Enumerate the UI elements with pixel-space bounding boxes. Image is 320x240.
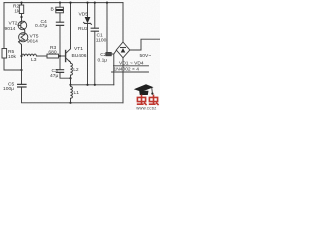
wire base node down to C3 bbox=[59, 56, 61, 70]
transistor VT1 bbox=[66, 49, 71, 62]
capacitor C3 bbox=[56, 70, 63, 73]
wire VD5 drop bbox=[87, 3, 89, 17]
wire R2 drop bbox=[21, 3, 23, 5]
wire AC input bbox=[130, 39, 160, 50]
svg-text:VD5: VD5 bbox=[79, 11, 89, 17]
svg-text:47μ: 47μ bbox=[50, 73, 58, 79]
svg-text:680: 680 bbox=[48, 49, 56, 55]
svg-text:R2: R2 bbox=[13, 3, 20, 9]
capacitor C5 bbox=[18, 84, 26, 87]
capacitor C4 bbox=[56, 22, 63, 25]
svg-text:RU2: RU2 bbox=[78, 26, 88, 32]
wire C1 drop bbox=[94, 3, 96, 29]
node below R2 bbox=[20, 16, 22, 18]
wire L1 to bottom rail bbox=[70, 98, 72, 102]
wire B to C4 bbox=[59, 13, 61, 22]
svg-text:50V~: 50V~ bbox=[140, 53, 152, 59]
resistor R3 bbox=[47, 54, 59, 58]
node bottom rail at L1 bbox=[69, 102, 71, 104]
svg-text:9014: 9014 bbox=[27, 39, 38, 45]
resistor R5 bbox=[2, 49, 7, 59]
node top rail at C2 line bbox=[106, 1, 108, 3]
node mid node bbox=[69, 84, 71, 86]
wire top rail bbox=[4, 2, 123, 4]
inductor L1 bbox=[71, 85, 73, 99]
svg-text:9014: 9014 bbox=[5, 26, 16, 32]
svg-text:L3: L3 bbox=[31, 57, 37, 63]
wire left rail lower to node bbox=[4, 58, 22, 70]
wire down to mid node bbox=[70, 78, 72, 85]
node top rail at VT1 bbox=[69, 1, 71, 3]
inductor L3 bbox=[22, 54, 37, 56]
wire R3 to node bbox=[59, 55, 61, 57]
bridge rectifier VD1-VD4 bbox=[116, 42, 130, 58]
capacitor C2 bbox=[106, 52, 111, 55]
wire C1 down to mid rail bbox=[94, 31, 96, 85]
transistor VT5 bbox=[19, 30, 28, 56]
node junction left-node bbox=[20, 69, 22, 71]
node L3 tap bbox=[20, 55, 22, 57]
svg-text:VT1: VT1 bbox=[74, 46, 83, 52]
svg-text:0.1μ: 0.1μ bbox=[98, 57, 108, 63]
wire bridge bottom to bottom rail bbox=[122, 58, 124, 103]
wire C2 vertical bbox=[106, 3, 108, 53]
wire VT1 collector up bbox=[70, 3, 72, 49]
svg-text:BU406: BU406 bbox=[72, 53, 87, 59]
svg-text:B: B bbox=[51, 6, 54, 12]
wire VT1 emitter down bbox=[70, 62, 72, 63]
wire C3 to mid rail bbox=[60, 72, 71, 78]
svg-text:100μ: 100μ bbox=[3, 86, 14, 92]
wire B drop bbox=[59, 3, 61, 8]
svg-text:10k: 10k bbox=[8, 54, 16, 60]
wire base node to VT1 bbox=[60, 55, 65, 57]
svg-text:VT2: VT2 bbox=[9, 21, 18, 27]
wire bridge top to rail bbox=[122, 3, 124, 42]
wire mid rail bbox=[71, 84, 114, 86]
resistor R2 bbox=[19, 5, 23, 14]
svg-text:1100: 1100 bbox=[96, 37, 107, 43]
wire L3 to R3 bbox=[37, 55, 48, 57]
wire left rail upper bbox=[3, 3, 5, 49]
logo graduation cap bbox=[134, 84, 154, 95]
node mid rail at VD5 bbox=[86, 84, 88, 86]
wire C4 to base node bbox=[59, 25, 61, 56]
wire L2 to mid node bbox=[70, 75, 72, 85]
svg-text:C2: C2 bbox=[100, 52, 107, 58]
svg-text:WWW.CCDZ: WWW.CCDZ bbox=[136, 107, 156, 110]
svg-text:1k: 1k bbox=[14, 9, 20, 15]
svg-text:L1: L1 bbox=[74, 90, 80, 96]
wire main left vertical bbox=[21, 14, 23, 85]
transistor VT2 bbox=[18, 21, 27, 30]
buzzer B bbox=[56, 7, 64, 13]
node top rail at B bbox=[59, 1, 61, 3]
svg-text:L2: L2 bbox=[73, 67, 79, 73]
node base node bbox=[59, 55, 61, 57]
svg-text:0.47μ: 0.47μ bbox=[35, 23, 48, 29]
capacitor C1 bbox=[91, 28, 98, 31]
node top rail at C1 bbox=[94, 1, 96, 3]
node top rail at VD5 bbox=[86, 1, 88, 3]
node C3 join bbox=[69, 77, 71, 79]
zener diode VD5 bbox=[84, 17, 92, 24]
wire C5 down and bottom rail bbox=[22, 87, 124, 103]
inductor L2 bbox=[71, 63, 73, 75]
wire VD5 down to mid rail bbox=[87, 23, 89, 84]
wire C2 to bridge bbox=[111, 50, 116, 84]
node top rail at R2 bbox=[20, 1, 22, 3]
node mid rail at C1 bbox=[94, 84, 96, 86]
logo text chongchong bbox=[137, 95, 159, 105]
